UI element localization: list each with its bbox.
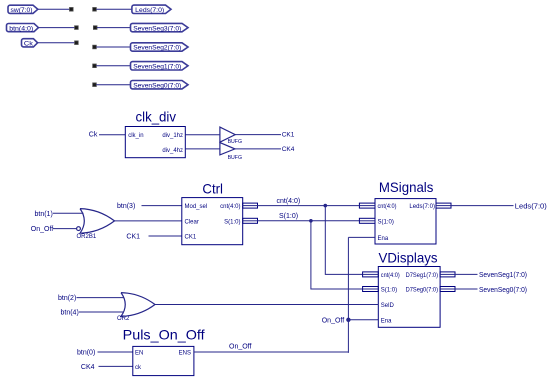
component clk_div [125,110,185,158]
or-gate OR2B1 [77,209,115,240]
connector square SevenSeg1 [93,64,97,68]
wire On_Off vertical [347,237,349,352]
wire btn(3) to Ctrl Mod_sel [142,205,182,207]
svg-text:Mod_sel: Mod_sel [185,204,208,210]
wire cnt(4:0) Ctrl to MSignals [258,205,360,207]
wire D7Seg0 to label [455,288,478,290]
svg-text:Clear: Clear [185,219,199,225]
svg-text:clk_in: clk_in [128,133,143,139]
wire junction to VDisplays Ena [348,319,378,321]
svg-text:EN: EN [135,350,143,356]
svg-text:ENS: ENS [179,350,191,356]
bus pin Ctrl S(1:0) [243,218,258,223]
svg-text:OR2: OR2 [117,316,130,322]
wire OR2B1 output to Ctrl Clear [115,220,182,222]
svg-text:D7Seg0(7:0): D7Seg0(7:0) [406,288,438,294]
wire BUFG1 to CK1 [235,134,281,136]
svg-text:CK4: CK4 [282,146,295,153]
svg-text:VDisplays: VDisplays [379,250,438,265]
wire CK4 to Puls_On_Off ck [99,365,133,367]
component Puls_On_Off [123,327,205,375]
bus pin VDisplays D7Seg1(7:0) [440,272,455,277]
svg-text:btn(4:0): btn(4:0) [9,25,33,32]
svg-text:cnt(4:0): cnt(4:0) [381,273,400,279]
svg-text:OR2B1: OR2B1 [77,234,97,240]
wire BUFG2 to CK4 [235,148,281,150]
wire to SevenSeg1(7:0) tag [96,65,130,67]
wire ENS to On_Off net [194,351,349,353]
wire sw(7:0) to connector [38,8,70,10]
svg-text:btn(1): btn(1) [35,211,53,218]
svg-text:cnt(4:0): cnt(4:0) [277,198,301,205]
output port SevenSeg3(7:0) [131,23,189,31]
connector square btn [75,26,79,30]
svg-text:btn(4): btn(4) [61,310,79,317]
connector square Leds [93,8,97,12]
wire On_Off to OR2B1 inverted input [53,228,77,230]
output port SevenSeg2(7:0) [131,43,189,51]
wire btn(1) to OR2B1 input [53,212,84,214]
junction S(1:0) [309,219,313,223]
component MSignals [375,180,436,244]
wire btn(4:0) to connector [38,27,74,29]
wire btn(2) to OR2 [77,297,125,299]
wire Ck to connector [38,42,75,44]
connector square SevenSeg3 [93,26,97,30]
svg-text:On_Off: On_Off [229,344,251,351]
bus pin Ctrl cnt(4:0) [243,203,258,208]
buffer BUFG2 [220,143,242,161]
or-gate OR2 [117,293,155,322]
wire div_1hz to BUFG1 [185,134,220,136]
svg-text:cnt(4:0): cnt(4:0) [378,204,397,210]
bus pin MSignals S(1:0) [359,218,375,223]
bus pin VDisplays D7Seg0(7:0) [440,287,455,292]
svg-text:clk_div: clk_div [136,110,177,125]
svg-text:CK1: CK1 [126,234,140,241]
wire S(1:0) Ctrl to MSignals [258,220,360,222]
input port sw(7:0) [8,5,38,13]
svg-text:Ck: Ck [24,41,34,48]
wire cnt(4:0) down to VDisplays [325,206,362,275]
svg-text:Leds(7:0): Leds(7:0) [135,7,164,14]
svg-text:SevenSeg0(7:0): SevenSeg0(7:0) [479,285,527,294]
connector square Ck [75,41,79,45]
input port btn(4:0) [7,24,39,32]
output port Leds(7:0) [132,5,171,13]
svg-text:btn(3): btn(3) [117,203,135,210]
svg-text:SevenSeg3(7:0): SevenSeg3(7:0) [133,25,181,32]
svg-text:ck: ck [135,365,142,371]
wire btn(0) to Puls_On_Off EN [98,351,133,353]
svg-text:SevenSeg2(7:0): SevenSeg2(7:0) [133,45,181,52]
svg-text:BUFG: BUFG [228,139,242,145]
svg-text:SevenSeg1(7:0): SevenSeg1(7:0) [479,270,527,279]
svg-text:S(1:0): S(1:0) [279,213,298,220]
wire MSignals Leds to label [451,205,514,207]
svg-text:Ctrl: Ctrl [202,182,223,197]
svg-text:Leds(7:0): Leds(7:0) [515,201,547,210]
connector square SevenSeg0 [93,83,97,87]
wire OR2 output to VDisplays SelD [155,304,378,306]
junction cnt(4:0) [324,204,328,208]
svg-text:SevenSeg1(7:0): SevenSeg1(7:0) [133,64,181,71]
input port Ck [22,39,38,47]
svg-text:Ck: Ck [89,132,98,139]
output port SevenSeg1(7:0) [131,62,189,70]
connector square SevenSeg2 [93,45,97,49]
svg-text:div_1hz: div_1hz [162,133,183,139]
component Ctrl [182,182,243,245]
wire S(1:0) down to VDisplays [311,221,363,289]
svg-text:cnt(4:0): cnt(4:0) [220,204,240,210]
wire btn(4) to OR2 [79,311,124,313]
wire to SevenSeg2(7:0) tag [96,46,130,48]
svg-text:BUFG: BUFG [228,155,242,161]
buffer BUFG1 [220,127,242,145]
svg-text:MSignals: MSignals [379,180,434,195]
svg-text:S(1:0): S(1:0) [381,288,397,294]
bus pin MSignals cnt(4:0) [359,203,375,208]
svg-text:sw(7:0): sw(7:0) [11,7,33,14]
svg-text:CK4: CK4 [81,364,95,371]
svg-text:Ena: Ena [381,318,392,324]
wire to Leds(7:0) tag [96,8,132,10]
svg-text:btn(2): btn(2) [58,295,76,302]
svg-text:SevenSeg0(7:0): SevenSeg0(7:0) [133,82,181,89]
svg-text:Puls_On_Off: Puls_On_Off [123,327,205,342]
svg-text:SelD: SelD [381,303,395,309]
junction On_Off at VDisplays Ena [346,318,350,322]
wire to SevenSeg0(7:0) tag [96,84,130,86]
component VDisplays [378,250,440,327]
wire to SevenSeg3(7:0) tag [97,27,131,29]
svg-text:Ena: Ena [378,236,389,242]
wire MSignals Ena [348,236,375,238]
svg-text:S(1:0): S(1:0) [378,219,394,225]
bus pin VDisplays S(1:0) [363,287,379,292]
svg-text:On_Off: On_Off [322,318,344,325]
bus pin VDisplays cnt(4:0) [363,272,379,277]
svg-text:D7Seg1(7:0): D7Seg1(7:0) [406,273,438,279]
svg-text:S(1:0): S(1:0) [224,219,240,225]
connector square sw [70,8,74,12]
svg-text:CK1: CK1 [282,132,295,139]
svg-text:On_Off: On_Off [31,226,53,233]
wire Ck to clk_div clk_in [99,134,125,136]
wire CK1 to Ctrl CK1 [149,235,182,237]
svg-text:btn(0): btn(0) [77,350,95,357]
svg-text:CK1: CK1 [185,235,197,241]
wire div_4hz to BUFG2 [185,148,220,150]
wire D7Seg1 to label [455,273,478,275]
svg-text:Leds(7:0): Leds(7:0) [409,204,435,210]
output port SevenSeg0(7:0) [131,81,189,89]
bus pin MSignals Leds(7:0) [436,203,451,208]
svg-text:div_4hz: div_4hz [162,148,183,154]
